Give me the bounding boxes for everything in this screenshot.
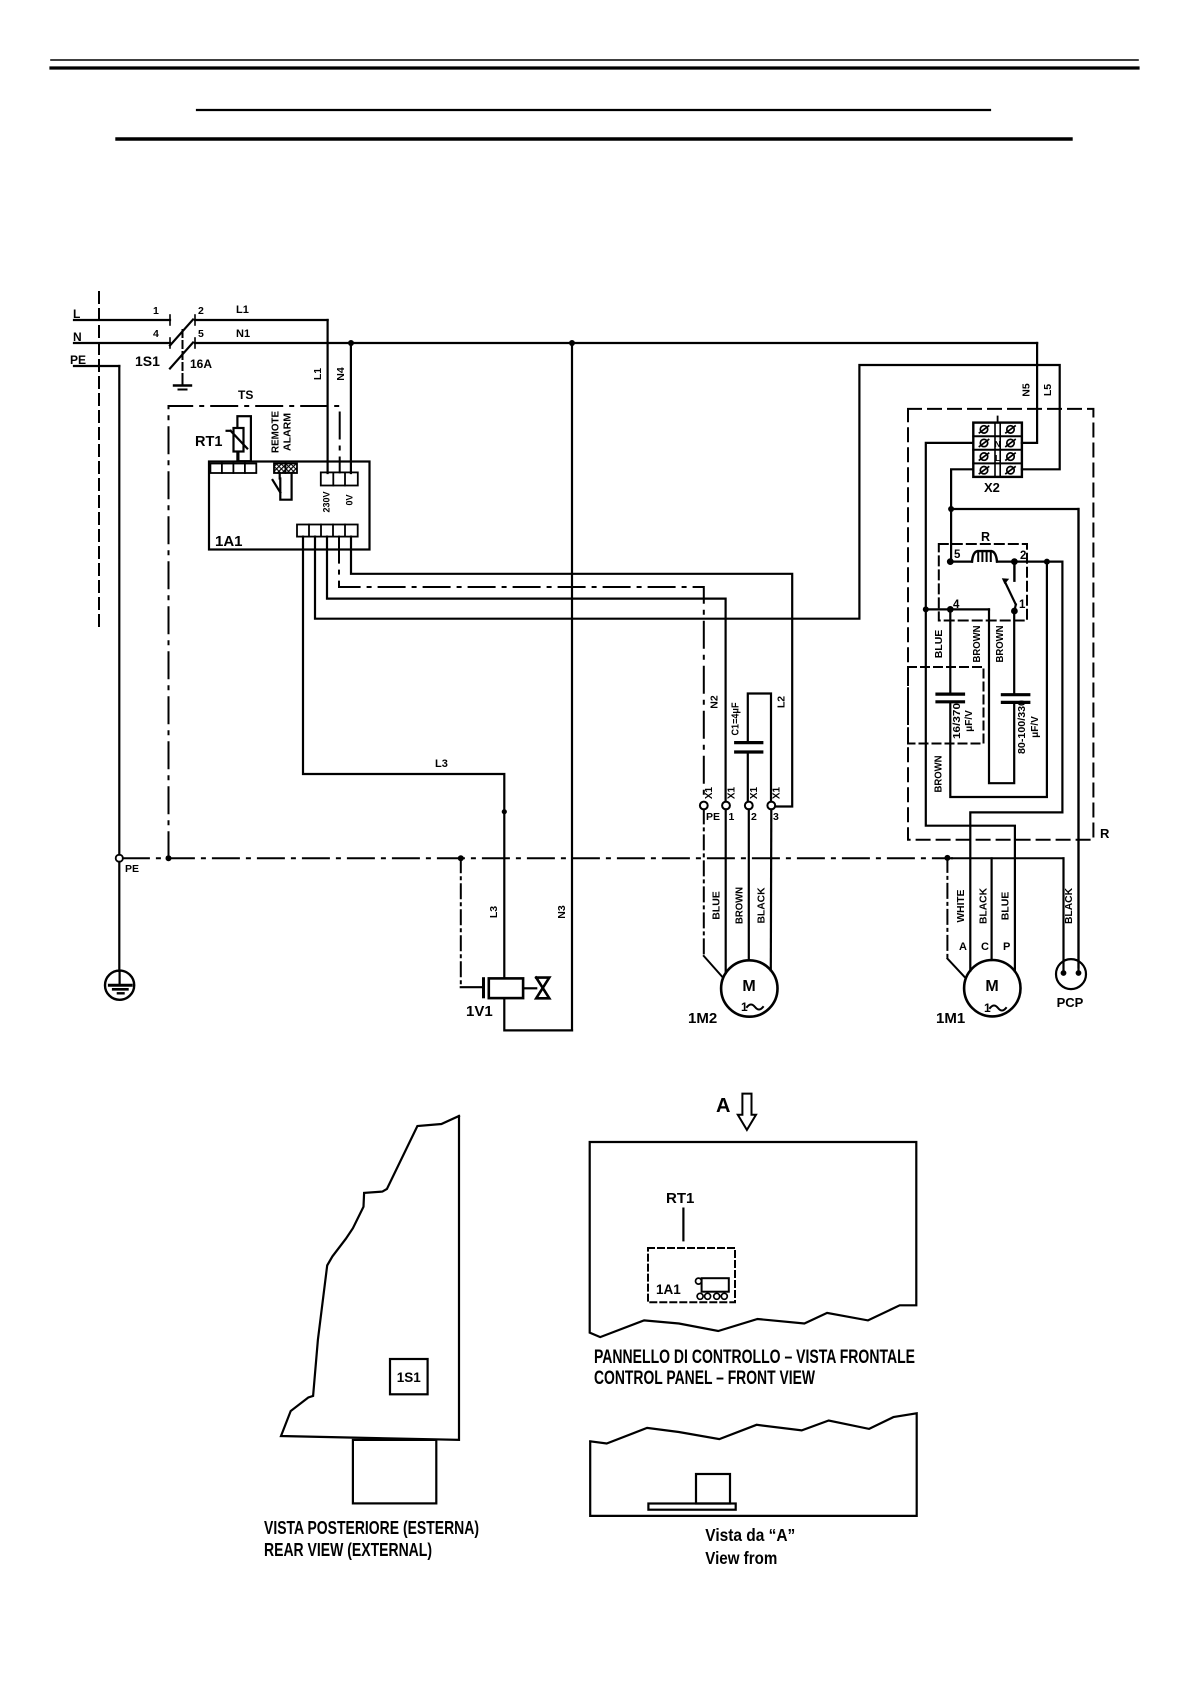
svg-text:M: M xyxy=(985,978,998,995)
svg-text:P: P xyxy=(1003,941,1010,953)
svg-text:2: 2 xyxy=(198,305,204,317)
svg-text:BROWN: BROWN xyxy=(994,626,1006,663)
svg-text:N2: N2 xyxy=(709,695,721,709)
svg-text:16A: 16A xyxy=(190,357,212,371)
svg-text:BROWN: BROWN xyxy=(971,626,983,663)
svg-text:PCP: PCP xyxy=(1057,995,1084,1010)
svg-text:REMOTE: REMOTE xyxy=(270,411,282,453)
svg-text:1A1: 1A1 xyxy=(656,1282,681,1297)
svg-text:PE: PE xyxy=(125,863,139,875)
svg-text:BLUE: BLUE xyxy=(1000,892,1012,921)
svg-text:1: 1 xyxy=(153,305,159,317)
svg-text:View from: View from xyxy=(705,1548,777,1568)
svg-text:N3: N3 xyxy=(556,905,568,919)
svg-text:PE: PE xyxy=(706,811,720,823)
svg-text:C: C xyxy=(981,941,989,953)
svg-text:1V1: 1V1 xyxy=(466,1003,493,1020)
svg-text:R: R xyxy=(981,530,990,544)
svg-text:RT1: RT1 xyxy=(666,1190,694,1207)
svg-text:X1: X1 xyxy=(749,786,760,799)
svg-text:1: 1 xyxy=(729,811,735,823)
svg-text:2: 2 xyxy=(1020,550,1026,562)
svg-text:M: M xyxy=(742,978,755,995)
svg-text:L5: L5 xyxy=(1042,384,1054,396)
svg-text:1S1: 1S1 xyxy=(135,353,160,369)
svg-text:L3: L3 xyxy=(488,906,500,918)
svg-text:16/370: 16/370 xyxy=(952,702,963,739)
svg-text:L1: L1 xyxy=(312,368,324,380)
svg-text:1: 1 xyxy=(1019,599,1026,611)
svg-text:2: 2 xyxy=(751,811,757,823)
svg-text:BLACK: BLACK xyxy=(756,887,768,923)
svg-text:N: N xyxy=(995,439,1001,449)
svg-text:PANNELLO DI CONTROLLO – VISTA: PANNELLO DI CONTROLLO – VISTA FRONTALE xyxy=(594,1347,915,1368)
svg-text:R: R xyxy=(1100,826,1110,841)
svg-text:X2: X2 xyxy=(984,480,1000,495)
svg-text:C1=4μF: C1=4μF xyxy=(731,703,742,736)
svg-text:3: 3 xyxy=(773,811,779,823)
svg-text:BLUE: BLUE xyxy=(933,630,945,659)
svg-text:VISTA POSTERIORE (ESTERNA): VISTA POSTERIORE (ESTERNA) xyxy=(264,1518,479,1538)
svg-text:N4: N4 xyxy=(335,367,347,381)
svg-text:230V: 230V xyxy=(322,491,332,512)
svg-text:1S1: 1S1 xyxy=(397,1370,422,1385)
svg-text:1M1: 1M1 xyxy=(936,1010,965,1027)
svg-text:ALARM: ALARM xyxy=(282,413,294,451)
svg-text:X1: X1 xyxy=(772,786,783,799)
svg-text:L1: L1 xyxy=(236,304,249,316)
svg-text:μF/V: μF/V xyxy=(1030,716,1041,738)
svg-text:1A1: 1A1 xyxy=(215,533,243,550)
svg-text:L3: L3 xyxy=(435,758,448,770)
svg-text:BROWN: BROWN xyxy=(933,756,945,793)
svg-text:L2: L2 xyxy=(776,696,788,708)
svg-text:WHITE: WHITE xyxy=(955,890,967,923)
svg-text:80-100/330: 80-100/330 xyxy=(1017,700,1028,754)
svg-text:4: 4 xyxy=(153,328,159,340)
svg-text:BROWN: BROWN xyxy=(734,887,746,924)
svg-text:BLUE: BLUE xyxy=(711,891,723,920)
svg-text:L: L xyxy=(995,453,1000,463)
svg-text:BLACK: BLACK xyxy=(977,888,989,924)
svg-text:A: A xyxy=(716,1095,730,1117)
svg-text:TS: TS xyxy=(238,388,253,402)
svg-text:μF/V: μF/V xyxy=(964,710,975,732)
svg-text:1M2: 1M2 xyxy=(688,1010,717,1027)
svg-text:0V: 0V xyxy=(345,494,355,505)
svg-text:5: 5 xyxy=(954,549,961,561)
svg-text:BLACK: BLACK xyxy=(1063,888,1075,924)
svg-text:N1: N1 xyxy=(236,328,250,340)
svg-text:A: A xyxy=(959,941,967,953)
svg-text:N5: N5 xyxy=(1021,383,1033,397)
svg-text:Vista da “A”: Vista da “A” xyxy=(705,1525,795,1545)
svg-text:5: 5 xyxy=(198,328,204,340)
svg-text:REAR VIEW (EXTERNAL): REAR VIEW (EXTERNAL) xyxy=(264,1540,432,1560)
svg-text:X1: X1 xyxy=(704,786,715,799)
svg-text:RT1: RT1 xyxy=(195,434,222,450)
svg-text:X1: X1 xyxy=(727,786,738,799)
svg-text:CONTROL PANEL – FRONT VIEW: CONTROL PANEL – FRONT VIEW xyxy=(594,1368,815,1389)
